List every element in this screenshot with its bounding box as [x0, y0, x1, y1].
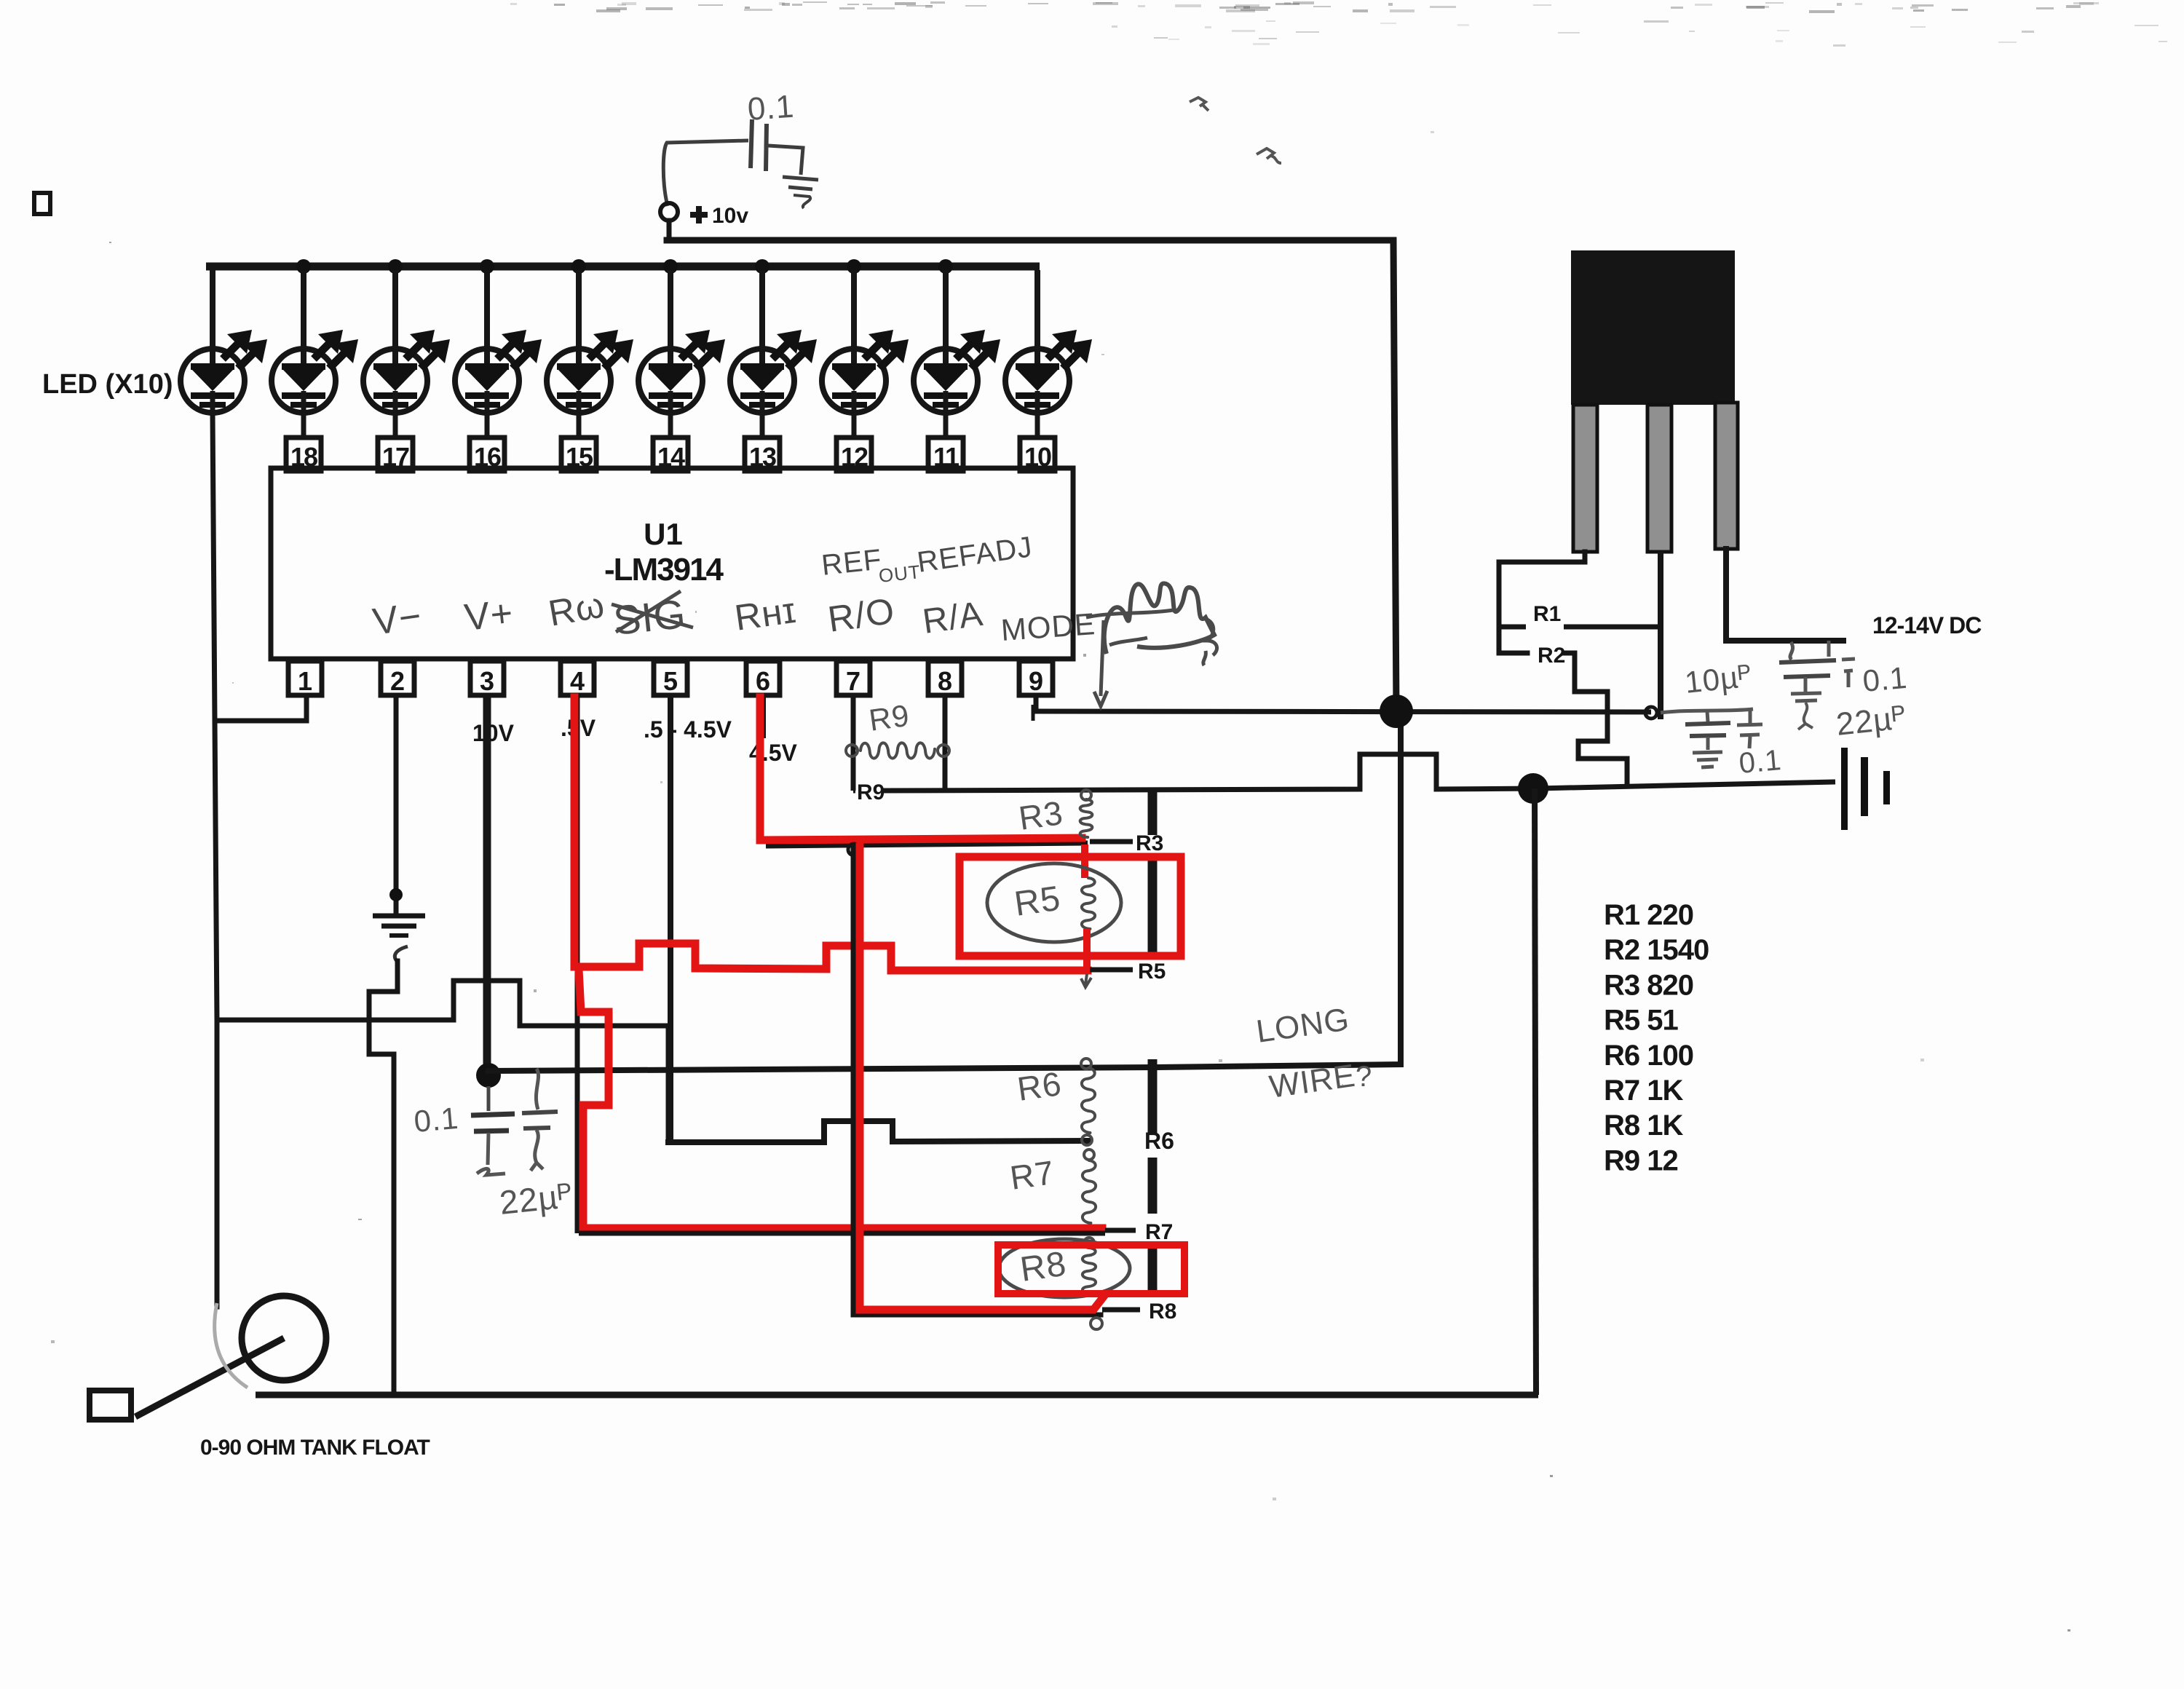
svg-text:R5: R5 [1138, 960, 1166, 984]
junction node pin3/caps [476, 1063, 501, 1088]
terminal +10V [660, 203, 678, 221]
wire R7 bottom circle [1084, 1238, 1094, 1248]
svg-text:R7: R7 [1145, 1220, 1173, 1244]
red wire R5 bottom [1083, 929, 1091, 970]
LED D1 [181, 270, 267, 413]
svg-text:5: 5 [663, 666, 678, 696]
svg-text:2: 2 [390, 666, 405, 696]
LED D9 [914, 270, 1000, 413]
tank float pivot circle [242, 1296, 326, 1380]
wire pin 6 RHI (black) [763, 695, 1088, 846]
hand label R5 [1012, 879, 1063, 924]
hand label R6 [1015, 1064, 1064, 1108]
pin box 1 [288, 661, 322, 696]
pin box 10 [1020, 438, 1055, 472]
wire LED1 cathode to pin 1 and down-left [213, 413, 306, 1307]
junction on LED bus (col 8) [847, 259, 861, 274]
pin box 6 [746, 661, 780, 696]
wire regulator middle leg [1658, 552, 1663, 719]
wire R8 bottom tick [1102, 1308, 1140, 1313]
wire interchange left [217, 981, 668, 1142]
wire R6 top junction [1081, 1059, 1091, 1069]
label 0.1 (near DC) [1861, 660, 1909, 698]
junction on LED bus (col 5) [571, 259, 586, 274]
wire pin 8 R/A [943, 695, 948, 789]
label 0-90 OHM TANK FLOAT [200, 1436, 430, 1460]
hand label R8 [1018, 1245, 1069, 1289]
svg-text:R9: R9 [857, 780, 885, 804]
svg-text:MODE: MODE [1000, 606, 1096, 647]
wire pin 7 R/O [851, 695, 856, 791]
svg-text:R8: R8 [1018, 1245, 1069, 1289]
capacitor 22uF (pin3 node, pencil) [522, 1069, 558, 1171]
wire LED D10 cathode [1035, 413, 1040, 439]
junction on LED bus (col 7) [755, 259, 769, 274]
label 22uF (near DC) [1835, 700, 1908, 743]
label R8 (printed) [1149, 1300, 1176, 1324]
svg-text:R1 220: R1 220 [1604, 899, 1693, 931]
wire LED D4 cathode [485, 413, 490, 439]
LED D10 [1005, 270, 1092, 413]
pin box 18 [286, 438, 321, 472]
wire below ground to bottom [369, 961, 397, 1395]
svg-text:22µᴾ: 22µᴾ [1835, 700, 1908, 743]
svg-text:?: ? [1356, 1061, 1372, 1093]
svg-text:10V: 10V [472, 720, 515, 746]
label 0.1 (bottom cap) [413, 1101, 460, 1139]
red highlight box around R8 [998, 1245, 1184, 1294]
svg-text:R5: R5 [1012, 879, 1063, 924]
svg-text:0.1: 0.1 [413, 1101, 460, 1139]
svg-text:R7: R7 [1008, 1153, 1056, 1197]
wire LED D3 cathode [393, 413, 398, 439]
capacitor 0.1 (top bypass, pencil) [663, 119, 803, 206]
wire LED D7 cathode [760, 413, 765, 439]
pin box 17 [378, 438, 413, 472]
hand label RLO [545, 584, 608, 634]
wire leg1 to R1/R2 bracket [1499, 552, 1585, 653]
pencil mark small 2 [1257, 149, 1281, 163]
hand label REF ADJ [915, 531, 1034, 579]
label 0.1 (top cap) [746, 89, 795, 127]
wire black vertical to R8 row [853, 847, 1101, 1315]
junction on LED bus (col 2) [296, 259, 311, 274]
LED D4 [455, 270, 542, 413]
junction dot MODE node [1380, 695, 1413, 728]
svg-text:R8 1K: R8 1K [1604, 1109, 1683, 1142]
red wire pin 4 to R5 bottom [574, 697, 1088, 970]
LED D2 [272, 270, 358, 413]
svg-text:V−: V− [371, 595, 424, 644]
svg-text:R6: R6 [1015, 1064, 1064, 1108]
junction on LED bus (col 6) [663, 259, 678, 274]
resistor R5 (hand) [1082, 878, 1095, 929]
svg-text:0.1: 0.1 [1861, 660, 1909, 698]
wire LED D9 cathode [943, 413, 949, 439]
svg-text:U1: U1 [644, 517, 683, 551]
LED D7 [730, 270, 817, 413]
hand label V+ [462, 592, 515, 639]
svg-text:22µᴾ: 22µᴾ [498, 1176, 575, 1222]
wire R8 bottom circle [1091, 1318, 1102, 1329]
svg-text:Rʜɪ: Rʜɪ [732, 590, 799, 638]
wire vertical bus (broken segments) [1148, 791, 1158, 1291]
LED D3 [363, 270, 450, 413]
wire R7 bottom tick [1105, 1228, 1136, 1233]
hand label R3 [1016, 794, 1065, 837]
wire LED D8 cathode [852, 413, 857, 439]
pencil oval around R8 [999, 1239, 1130, 1297]
LED D8 [822, 270, 909, 413]
hand label SIG (crossed out) [612, 590, 693, 644]
svg-text:0.1: 0.1 [1738, 744, 1783, 780]
pin box 5 [654, 661, 687, 696]
component value list [1604, 899, 1709, 1176]
label .5V [561, 715, 596, 741]
resistor R1 (tick and line) [1499, 625, 1661, 630]
wire R3 bottom tick [1090, 839, 1133, 844]
svg-text:REF: REF [820, 544, 883, 582]
svg-text:10v: 10v [712, 204, 748, 228]
label R5 (printed) [1138, 960, 1166, 984]
pin box 11 [928, 438, 963, 472]
label U1 [644, 517, 683, 551]
pencil mark small 1 [1190, 98, 1208, 111]
hand label V- [371, 595, 424, 644]
wire bottom horizontal [256, 1392, 1538, 1399]
svg-text:8: 8 [938, 666, 952, 696]
hand label R/O [826, 590, 898, 640]
label R3 (printed) [1136, 831, 1163, 855]
pin box 2 [381, 661, 414, 696]
pin box 13 [745, 438, 780, 472]
svg-text:0-90 OHM TANK FLOAT: 0-90 OHM TANK FLOAT [200, 1436, 430, 1460]
wire black under R7 row [579, 1231, 1105, 1236]
svg-text:OUT: OUT [877, 561, 922, 587]
label + 10v [690, 204, 748, 228]
label .5 - 4.5V [644, 716, 732, 743]
red highlight box around R5 [960, 857, 1181, 956]
label 0.1 (right of 10uF) [1738, 744, 1783, 780]
pin box 7 [836, 661, 870, 696]
resistor R9 (hand) [846, 743, 949, 758]
terminal circle (R/O line end) [1645, 707, 1657, 719]
svg-text:9: 9 [1029, 666, 1043, 696]
pin box 9 [1019, 661, 1053, 696]
page corner mark [34, 193, 50, 214]
label R2 [1538, 644, 1565, 668]
red wire R5 top [1081, 844, 1088, 878]
pin box 8 [928, 661, 962, 696]
tank float end square [90, 1391, 131, 1420]
pin box 14 [653, 438, 688, 472]
resistor R3 (hand) [1080, 799, 1093, 837]
svg-text:6: 6 [756, 666, 770, 696]
svg-text:LED (X10): LED (X10) [42, 369, 173, 400]
svg-text:12-14V DC: 12-14V DC [1872, 612, 1982, 638]
regulator leg 3 [1715, 403, 1738, 549]
resistor R8 (hand) [1083, 1248, 1096, 1294]
label 12-14V DC [1872, 612, 1982, 638]
wire LED D6 cathode [668, 413, 673, 439]
ground (right, bars) [1841, 748, 1890, 830]
red wire pin 6 to R3 bottom [760, 697, 1082, 840]
pin box 3 [470, 661, 504, 696]
regulator leg 1 [1573, 405, 1597, 552]
hand label RHI [732, 590, 799, 638]
pin box 16 [470, 438, 505, 472]
pin box 15 [561, 438, 596, 472]
svg-text:R7 1K: R7 1K [1604, 1075, 1683, 1107]
red wire vertical to R8 row [860, 847, 1104, 1310]
label R6 (printed) [1144, 1128, 1174, 1154]
op-amp/IC U1 LM3914 body [271, 468, 1073, 659]
svg-text:R2 1540: R2 1540 [1604, 934, 1709, 966]
ground (top cap, pencil) [783, 177, 818, 208]
junction circle on pin6 line [848, 844, 860, 855]
resistor R7 (hand) [1083, 1150, 1096, 1223]
junction on LED bus (col 3) [388, 259, 403, 274]
svg-text:V+: V+ [462, 592, 515, 639]
label R1 [1533, 602, 1561, 626]
wire R2 staircase [1564, 653, 1627, 786]
wire pin 9 MODE [1033, 695, 1651, 721]
svg-text:-LM3914: -LM3914 [604, 552, 724, 588]
wire pin 5 SIG [668, 695, 673, 1142]
wire long (pin3 node to MODE node) [488, 712, 1401, 1071]
label 4.5V [749, 740, 797, 766]
hand label R7 [1008, 1153, 1056, 1197]
wire LED anode bus [206, 263, 1040, 271]
svg-text:R5 51: R5 51 [1604, 1005, 1678, 1037]
label R9 (printed) [857, 780, 885, 804]
tank float lever [135, 1338, 284, 1417]
regulator leg 2 [1647, 405, 1671, 552]
wire right vertical [1535, 788, 1536, 1395]
tank float faint arc [215, 1303, 248, 1388]
label LED (X10) [42, 369, 173, 400]
wire R3 top junction [1081, 790, 1091, 800]
junction dot (ground node) [1518, 773, 1548, 804]
resistor R6 (hand) [1082, 1068, 1095, 1133]
wire LED D2 cathode [301, 413, 306, 439]
svg-text:7: 7 [846, 666, 860, 696]
hand label MODE [1000, 606, 1096, 647]
wire R6 bottom circle [1082, 1135, 1092, 1145]
svg-text:0.1: 0.1 [746, 89, 795, 127]
label 22uF (bottom cap) [498, 1176, 575, 1222]
hand label R9 [867, 698, 912, 737]
capacitor 0.1 (pin3 node, pencil) [471, 1086, 515, 1175]
pencil oval around R5 [987, 863, 1121, 942]
capacitor 10uF (hand) [1661, 709, 1762, 767]
hand label R/A [920, 595, 986, 641]
hand label REF OUT [820, 544, 922, 587]
junction on V- wire [389, 888, 403, 901]
wire +10V rail (terminal to right vertical) [667, 221, 1396, 711]
regulator U2 body [1571, 250, 1735, 405]
wire R6 bottom bus [668, 1121, 1088, 1142]
svg-text:R3 820: R3 820 [1604, 969, 1693, 1001]
svg-text:R3: R3 [1016, 794, 1065, 837]
label 10uF [1683, 659, 1754, 700]
svg-text:10µᴾ: 10µᴾ [1683, 659, 1754, 700]
capacitor cluster 0.1/22uF (hand) [1779, 641, 1855, 729]
svg-text:3: 3 [480, 666, 494, 696]
svg-text:.5 - 4.5V: .5 - 4.5V [644, 716, 732, 743]
svg-text:R6 100: R6 100 [1604, 1040, 1693, 1072]
hand label LONG WIRE? [1254, 1001, 1373, 1104]
wire pin 2 V- [394, 695, 399, 914]
pin box 4 [561, 661, 594, 696]
wire R9 row to right ground [853, 754, 1835, 791]
ground (under pin 2) [373, 916, 425, 961]
svg-text:R1: R1 [1533, 602, 1561, 626]
wire leg3 to DC input [1726, 549, 1843, 641]
svg-text:R9: R9 [867, 698, 912, 737]
svg-text:R9 12: R9 12 [1604, 1144, 1678, 1176]
pin box 12 [836, 438, 871, 472]
LED D6 [638, 270, 725, 413]
label LM3914 [604, 552, 724, 588]
wire pin 3 V+ 10V [483, 695, 491, 1075]
label R7 (printed) [1145, 1220, 1173, 1244]
wire R5 bottom tick [1090, 968, 1133, 973]
wire LED D5 cathode [577, 413, 582, 439]
label 10V [472, 720, 515, 746]
svg-text:1: 1 [298, 666, 312, 696]
svg-text:4: 4 [570, 666, 585, 696]
pencil scribble near MODE [1086, 583, 1217, 706]
junction on LED bus (col 9) [938, 259, 953, 274]
junction on LED bus (col 4) [480, 259, 494, 274]
svg-text:R8: R8 [1149, 1300, 1176, 1324]
LED D5 [547, 270, 633, 413]
wire pin 4 RLO (black) [575, 695, 580, 1233]
red wire pin 4 branch down to R7 row [579, 970, 1102, 1228]
pencil arrow under R5 row [1081, 974, 1091, 987]
